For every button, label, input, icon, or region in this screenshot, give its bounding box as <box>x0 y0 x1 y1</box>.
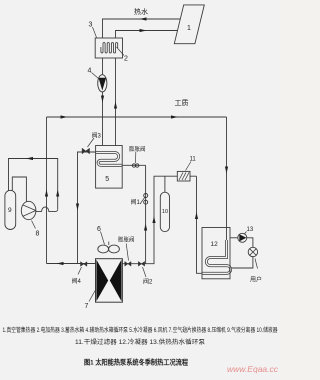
storage tank 3 <box>95 38 122 58</box>
wire: line from filter 11 down to condenser <box>197 176 203 273</box>
svg-text:热水: 热水 <box>134 7 148 16</box>
wire: compressor discharge with hop <box>36 207 58 211</box>
arrow down on valve3 drop line <box>76 204 79 211</box>
label 3 with leader <box>89 22 97 38</box>
label 8 with leader <box>32 221 40 238</box>
wire: collector lower line <box>116 31 178 39</box>
svg-text:阀2: 阀2 <box>143 278 153 286</box>
arrow right on top line (right) <box>171 115 178 118</box>
svg-text:膨胀阀: 膨胀阀 <box>118 236 135 244</box>
wire: cylinder10 top stub <box>164 176 166 192</box>
wire: long left vertical <box>46 117 48 264</box>
coil tube in box 5 <box>96 153 123 166</box>
label 6 with leader <box>97 226 105 245</box>
wire: tank left down line to box5 <box>102 58 104 146</box>
valve 阀4 <box>72 262 87 285</box>
arrow up on filter drop line <box>195 212 198 219</box>
label 4 with leader <box>88 68 99 79</box>
label 7 with leader <box>85 289 97 310</box>
arrow left on bottom-left line <box>57 262 64 265</box>
arrow down on tank left line <box>101 96 104 103</box>
wire: tank right down line to box5 <box>115 58 117 146</box>
arrow up on valve1 line A <box>144 224 147 231</box>
wire: bottom-left line to box7 <box>47 263 96 265</box>
svg-text:1: 1 <box>187 25 191 32</box>
wire: valve3 line and left drop <box>78 152 96 264</box>
svg-text:2: 2 <box>124 56 128 63</box>
electric heater coil 2 <box>101 43 118 53</box>
user symbol <box>248 247 262 283</box>
filter drier 11 <box>177 171 190 181</box>
svg-text:阀3: 阀3 <box>92 132 102 140</box>
wire: box7 right line <box>122 176 196 264</box>
svg-text:11.干燥过滤器 12.冷凝器 13.供热热水循环泵: 11.干燥过滤器 12.冷凝器 13.供热热水循环泵 <box>75 338 205 346</box>
pump 4 <box>98 75 107 92</box>
svg-text:1.真空管集热器 2.电加热器 3.蓄热水箱 4.辅助热水箱: 1.真空管集热器 2.电加热器 3.蓄热水箱 4.辅助热水箱循环泵 5.水冷凝器… <box>3 326 278 334</box>
compressor 8 <box>21 201 36 219</box>
arrow up on suction riser <box>56 190 59 197</box>
solar collector 1 <box>174 5 204 44</box>
label 2 with leader <box>117 47 129 63</box>
arrow up on line B <box>152 216 155 223</box>
svg-text:图1 太阳能热泵系统冬季制热工况流程: 图1 太阳能热泵系统冬季制热工况流程 <box>84 358 188 367</box>
svg-text:5: 5 <box>105 176 109 183</box>
wire: pump 13 to user <box>247 238 253 248</box>
pump 13 <box>238 227 254 242</box>
arrow up on long left vertical <box>45 190 48 197</box>
svg-text:8: 8 <box>36 231 40 238</box>
arrow left on suction horizontal <box>26 157 33 160</box>
arrow up on tank right line <box>114 102 117 109</box>
label 11 with leader <box>186 157 197 171</box>
svg-text:13: 13 <box>247 227 254 233</box>
arrow down on right vertical <box>225 167 228 174</box>
valve 阀3 <box>82 132 101 154</box>
wire: suction loop horizontal <box>9 159 58 210</box>
coil tube in condenser 12 <box>202 240 231 273</box>
svg-text:用户: 用户 <box>250 276 262 284</box>
watermark <box>227 364 278 374</box>
svg-text:10: 10 <box>162 209 168 215</box>
wire: user return to condenser <box>230 257 253 268</box>
arrow right on top line (left) <box>61 115 68 118</box>
condenser box 5 <box>96 146 123 189</box>
fan 6 <box>98 242 120 253</box>
svg-text:4: 4 <box>88 68 92 75</box>
valve 阀1 (vertical, two circles) <box>131 194 148 207</box>
wire: separator to compressor stub <box>12 177 26 202</box>
expansion valve (lower) <box>118 236 135 267</box>
wire: right vertical to condenser 12 <box>226 117 228 228</box>
wire: working-medium top line <box>47 116 227 118</box>
svg-text:12: 12 <box>211 241 219 248</box>
svg-text:阀4: 阀4 <box>72 277 82 285</box>
wire: collector upper line <box>103 19 181 38</box>
air heat exchanger 7 <box>96 259 123 303</box>
separator 9 <box>5 190 16 229</box>
wire: box5 coil exit line <box>122 164 145 166</box>
valve 阀2 <box>138 262 153 286</box>
arrow left on collector upper line <box>140 17 147 20</box>
wire: condenser water out to pump 13 <box>230 237 238 239</box>
wire: valve1 vertical line A <box>145 165 147 263</box>
svg-text:7: 7 <box>85 303 89 310</box>
expansion valve (upper, double circle) <box>129 145 146 167</box>
svg-text:工质: 工质 <box>175 98 189 107</box>
receiver cylinder 10 <box>160 192 169 232</box>
svg-text:3: 3 <box>89 22 93 29</box>
arrow right on collector lower line <box>140 29 147 32</box>
condenser 12 <box>202 228 231 279</box>
svg-text:阀1: 阀1 <box>131 198 141 206</box>
svg-text:9: 9 <box>8 207 12 214</box>
svg-text:膨胀阀: 膨胀阀 <box>129 145 146 153</box>
